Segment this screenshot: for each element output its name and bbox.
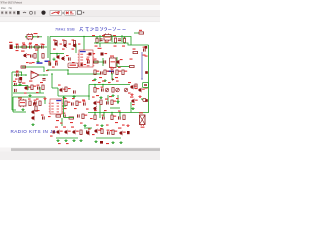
resistor R32 [111,100,116,105]
svg-text:Help: Help [9,6,12,10]
capacitor C3 [41,44,44,49]
wire drop n9 [111,113,113,116]
junction n14 [111,73,113,75]
bead L3 [145,99,148,102]
label v5 [56,120,59,121]
wire bus drop mid [96,37,98,40]
label v42 [135,88,138,89]
junction osc j [56,53,58,55]
wire agc wire [92,73,100,75]
resistor R5 [73,41,75,46]
transistor Q19 [116,60,119,64]
final comp [100,141,103,144]
label v15 [60,44,62,45]
capacitor C21 [34,100,37,105]
label v64 [100,128,103,129]
IC U7 filter [27,33,33,40]
label v34 [102,81,105,82]
ground GND22 [79,139,82,142]
label v52 [86,109,89,110]
toolbar [0,10,160,17]
wire rf top right [134,32,139,34]
junction n9b [119,112,121,114]
wire xtal run [86,61,92,63]
label v32 [118,67,121,68]
label q11 name [130,97,133,98]
wire drop n8 [103,113,105,118]
coil L4 [143,98,146,101]
svg-text:RADIO KITS IN JA: RADIO KITS IN JA [11,129,57,134]
resistor R38 [123,115,125,120]
junction n11 [67,69,69,71]
label v68 [132,104,135,105]
wire mid step4 [57,88,59,96]
resistor R27 [29,101,31,106]
wire rx vert [99,105,101,118]
IC FL1 filter [104,33,111,41]
wire row1 vert drop [37,47,39,62]
capacitor C6 [143,47,146,52]
transistor Q3 [73,43,76,47]
label U7 value [34,33,38,34]
wire lm h1 [13,85,28,87]
ground GND17 [31,123,34,126]
wire bfo vert [75,44,77,53]
resistor R7 [114,38,116,43]
wire mixer drop3 [121,35,123,42]
label Q3 val [72,49,75,50]
resistor R22 [42,85,44,90]
label Q6 name [128,82,131,83]
resistor R17 [104,70,109,75]
resistor R14 [21,66,26,68]
label v46 [64,98,67,99]
bus arrow [141,78,143,80]
resistor R37 [111,115,116,120]
label v59 [80,123,83,124]
label Q4 name [21,51,24,52]
label U2 name [110,56,114,57]
resistor R11 [42,54,44,59]
wire det vert a [107,95,109,104]
label v63 [88,129,91,130]
label pa label [92,134,95,135]
label X2 value [105,53,108,54]
wire left rail stub top [12,71,22,73]
capacitor C10 [87,60,90,63]
capacitor C22 [71,102,74,105]
wire net drop x131 [130,102,132,113]
wire mixer drop2 [99,35,101,42]
label C10 value [86,59,89,60]
junction mx j2 [115,42,117,44]
label v17 [78,44,80,45]
wire q19 vert [116,57,118,67]
label Q3 name [72,40,75,41]
resistor R23 [65,87,67,92]
toolbar red button 2 [65,11,76,16]
wire mx drop [99,43,101,47]
title bar [0,0,160,5]
trimmer VC2 [116,88,120,92]
resistor R1 [22,44,27,48]
label v66 [58,143,61,144]
wire bfo vert2 [56,54,58,57]
ground GND27 [126,124,129,127]
wire det vert b [117,95,119,104]
junction n2 [27,46,29,48]
wire opamp loop [22,67,44,72]
capacitor C31 [33,102,36,105]
wire u1 top feed [83,37,85,51]
label val2 [109,96,112,97]
transistor Q13 [31,116,34,120]
ground GND13 [99,96,102,99]
junction n9 [111,112,113,114]
label q18 v [118,128,121,129]
transistor Q1 [54,42,57,46]
resistor R19 [122,70,127,75]
label val1 [96,95,99,96]
label x1 label [139,112,143,113]
wire agc seg [110,107,120,109]
label right rail part b [145,88,148,89]
label v54 [104,110,107,111]
out cap C35 [127,131,130,134]
wire bus drop mid2 [124,37,126,40]
input cap [20,77,23,80]
label q15 v [63,127,66,128]
capacitor C2 [29,44,32,49]
resistor R8 [123,38,125,43]
ground GND24 [111,141,114,144]
resistor R12 [94,61,99,63]
resistor R16 [94,70,99,75]
capacitor C7 [30,54,33,57]
junction n10 [51,73,53,75]
capacitor C12 [42,78,45,81]
label t1 name [18,98,22,99]
ground GND18 [100,124,103,127]
label X1 value [93,53,96,54]
label v20 [92,35,95,36]
label v14 [42,44,45,45]
wire signal run row1 [14,46,47,48]
label v41 [108,82,111,83]
junction n step2 [67,73,69,75]
label v45 [36,99,39,100]
label c34 v [41,115,44,116]
ground GND9 [138,95,141,98]
label v51 [74,108,77,109]
wire lm v2 [39,87,41,93]
xtal2 X2 [101,53,104,56]
capacitor C28 [118,116,121,119]
label v49 [116,98,119,99]
label right rail part a [145,56,148,57]
wire osc box left edge [49,37,51,67]
resistor R31 [100,100,102,105]
label v40 [98,82,101,83]
junction n4 [39,46,41,48]
wire det bus [89,84,130,86]
label v67 [66,143,69,144]
junction mx j1 [96,42,98,44]
label J1 label [9,42,12,43]
label v43 [128,93,131,94]
label v18 [66,55,69,56]
wire osc net [50,53,64,55]
bus B1 [141,52,143,80]
label v19 [72,62,75,63]
wire det drop1b [102,85,104,88]
junction n6 [43,74,45,76]
wire bottom bus [88,112,131,114]
wire mixer sub [94,43,131,45]
resistor R9 [139,32,144,34]
label U3 blue [37,62,43,64]
label v37 [36,92,39,93]
label c32 v [48,61,51,62]
label C6 value [143,55,146,56]
junction n7 [94,112,96,114]
ground GND7 [103,79,106,82]
transistor Q6 [130,85,137,89]
wire if run [117,66,130,68]
label v47 [72,98,75,99]
label v61 [106,125,109,126]
capacitor C34 [42,116,45,119]
ground GND29 [43,97,46,100]
ground GND20 [64,139,67,142]
transistor Q11 [131,99,138,103]
capacitor C4 [99,39,102,42]
svg-text:Window: Window [1,6,6,10]
label d3 v [50,136,53,137]
pad1 [81,64,83,66]
ground GND4 [36,60,39,63]
ground GND16 [131,107,134,110]
label v55 [118,111,121,112]
label bottom v [106,143,109,144]
label v50 [64,108,67,109]
transistor Q9 [59,88,65,92]
capacitor C14 [111,69,114,74]
bias diode D3 [53,131,55,134]
label v22 [113,35,116,36]
wire drop n9b [119,113,121,118]
ferrite bead L1 [145,46,148,49]
op-amp U3 [31,71,39,79]
label q8 name [22,83,25,84]
capacitor C17 [37,85,40,90]
connector X1 antenna [140,115,146,128]
wire right supply rail [131,45,149,113]
label U3 name [32,72,35,73]
resistor R20 [135,84,137,89]
secondary bar [0,17,160,22]
label v30 [52,67,55,68]
ground GND6 [93,78,96,81]
label v39 [68,88,71,89]
label v44 [28,99,31,100]
label v16 [69,44,71,45]
label v57 [90,118,93,119]
junction n5 [25,74,27,76]
wire det drop1 [94,85,96,88]
wire lower left vert [12,97,14,112]
label C1 value [16,50,19,51]
capacitor C11 [16,72,19,77]
resistor R18 [116,70,121,75]
label v7 [115,122,118,123]
label q12 v [37,110,40,111]
resistor R33 [56,115,61,117]
capacitor C23 [83,101,86,106]
transistor Q18 [119,131,126,135]
wire bot gnd run [84,127,92,129]
resistor R35 [82,114,87,119]
wire mid step3 [52,87,58,89]
svg-text:7M TRX.sch - EAGLE 7.6.0 Profe: 7M TRX.sch - EAGLE 7.6.0 Professional [0,1,22,5]
resistor R39 [80,130,82,135]
label v36 [24,93,27,94]
label U3 top label [29,63,32,64]
resistor R29 [65,101,70,106]
menu bar [0,5,160,10]
crystal X1 [89,53,92,56]
label v33 [92,80,95,81]
label C12 value [40,82,43,83]
label v48 [92,97,95,98]
resistor R2 [35,44,40,48]
microphone jack J1 [10,45,13,50]
label v10 [22,43,25,44]
ground GND23 [94,140,97,143]
label c15 v [13,81,16,82]
label v62 [122,125,125,126]
wire lm h2 [13,92,44,94]
wire det vert c [102,58,104,66]
label v27 [16,71,19,72]
wire tx line2 [64,117,74,119]
resistor R42 [35,106,37,111]
wire mid low bus [58,95,89,97]
resistor R24 [94,88,99,93]
label R9 value [139,30,142,31]
resistor R4 [64,41,66,46]
label q14 v [55,127,58,128]
junction n8 [103,112,105,114]
label v21 [102,35,105,36]
capacitor C24 [106,101,109,104]
junction n1 [20,46,22,48]
wire det in [84,61,103,63]
transistor Q12 [31,110,37,114]
label mx label [98,48,102,49]
wire rx line [62,105,66,107]
junction n12 [88,95,90,97]
label v4 [105,99,108,100]
label r18 value [115,77,118,78]
label Q1 val [53,49,56,50]
resistor R10 [34,54,36,59]
wire left box bottom [13,111,26,113]
svg-text:7MHz SSB: 7MHz SSB [55,28,75,32]
label v12 [16,44,18,45]
wire left rail stub v [21,72,23,76]
label v6 [70,122,73,123]
wire mid vertical [51,74,53,88]
resistor R6 [96,38,98,43]
toolbar dark circle icon [41,11,45,15]
IC U1 op-amp [78,50,95,67]
transistor Q14 [56,130,62,134]
wire signal run row1b [33,36,42,38]
junction n step1 [47,69,49,71]
resistor R34 [69,117,74,119]
toolbar widget box [77,11,81,14]
ground GND10 [28,94,31,97]
capacitor C10b [104,60,107,63]
label Q2 val [62,49,65,50]
transistor Q8 [24,86,31,90]
wire relay drop [63,96,65,118]
label v3 [82,100,85,101]
wire top supply bus [50,37,149,46]
diode D2 [38,36,40,38]
ground GND19 [56,139,59,142]
capacitor C29 [86,130,89,133]
resistor R40 [101,129,103,134]
junction coil junction [141,98,143,100]
junction n3 [33,46,35,48]
label R7 value [114,46,117,47]
capacitor C25 [63,113,66,118]
label v29 [46,70,49,71]
wire bot gnd run2 [56,137,78,139]
transistor Q15 [64,130,71,134]
resistor R28 [39,101,41,106]
trimmer VC3 [124,88,128,92]
label v11 [29,43,32,44]
resistor R45 [133,51,138,53]
label v31 [110,67,113,68]
wire mixer drop [111,35,113,42]
label v35 [116,81,119,82]
label v60 [96,125,99,126]
label Q2 name [62,40,65,41]
junction U7 pin R [32,36,34,38]
label R12 value [94,59,97,60]
label xtal blue [45,61,50,63]
transistor Q5b [56,55,59,59]
wire tx vert [61,118,63,126]
transistor Q10b [93,106,96,110]
capacitor C26 [77,114,80,117]
ground GND11 [62,96,65,99]
label FL1 value [105,42,109,43]
wire left input rail [11,72,13,110]
capacitor C27 [102,115,105,120]
capacitor C16 [14,89,17,92]
transistor Q5c [61,56,64,60]
label c13 value [99,77,102,78]
label v53 [94,110,97,111]
wire opamp out [39,74,48,76]
capacitor C5 [118,39,121,42]
ground GND21 [72,139,75,142]
